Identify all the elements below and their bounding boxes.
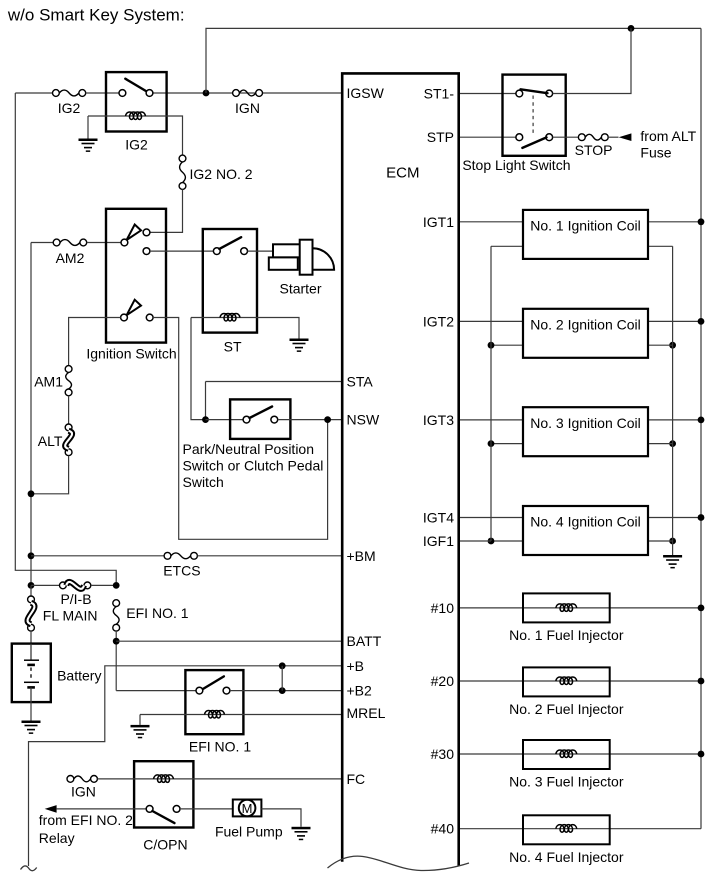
relay EFI NO. 1 body bbox=[185, 670, 243, 734]
wire EFI NO. 1 fuse to EFI relay contact bbox=[115, 631, 117, 691]
coil No. 3 fuel injector winding bbox=[556, 750, 577, 758]
coil No. 1 fuel injector winding bbox=[556, 604, 577, 612]
svg-text:IGN: IGN bbox=[71, 784, 96, 800]
wire ST relay coil to STA node bbox=[191, 318, 206, 420]
contact park/neutral switch right bbox=[271, 416, 278, 423]
wire IG2 relay coil row to IG2 NO. 2 fuse bbox=[88, 116, 183, 155]
wire No. 2 ignition coil to ground bus bbox=[648, 344, 673, 346]
wire to P/I-B fusible link bbox=[31, 584, 60, 586]
svg-text:Battery: Battery bbox=[57, 668, 101, 684]
svg-text:Starter: Starter bbox=[279, 281, 321, 297]
junction +B rail at IGT1 bbox=[698, 218, 705, 225]
svg-text:from ALT: from ALT bbox=[640, 128, 696, 144]
ground ignition coils bbox=[663, 555, 682, 568]
wire #40 pin through No. 4 fuel injector to +B rail bbox=[459, 828, 701, 830]
svg-text:Switch: Switch bbox=[183, 474, 224, 490]
wire ST relay to starter bbox=[248, 250, 274, 252]
junction coil ground bus at No. 3 coil bbox=[669, 440, 676, 447]
contact EFI relay switch right bbox=[223, 687, 230, 694]
contact stop light switch upper right bbox=[546, 90, 553, 97]
junction IGF bus at No. 3 coil bbox=[488, 440, 495, 447]
coil IG2 relay winding bbox=[126, 112, 146, 120]
wire ignition switch AM1 terminal to AM1 fuse bbox=[69, 318, 121, 366]
fusible link P/I-B bbox=[60, 582, 91, 589]
svg-text:IG2: IG2 bbox=[125, 137, 148, 153]
fuse STOP bbox=[578, 134, 608, 141]
junction top rail / stop light switch branch bbox=[628, 25, 635, 32]
wire No. 2 ignition coil to +B rail bbox=[648, 320, 701, 322]
junction coil ground bus at No. 4 coil bbox=[669, 538, 676, 545]
wire P/I-B to EFI NO. 1 fuse node bbox=[91, 584, 116, 586]
wire IG2 NO. 2 fuse to ignition switch IG2 terminal bbox=[150, 189, 183, 232]
contact ignition switch ST feed terminal bbox=[143, 248, 150, 255]
fuel injector No. 3 body bbox=[523, 740, 610, 769]
junction +B rail at #10 bbox=[698, 605, 705, 612]
wire No. 3 ignition coil to +B rail bbox=[648, 419, 701, 421]
svg-text:from EFI NO. 2: from EFI NO. 2 bbox=[39, 812, 133, 828]
wire ST relay coil row to ground bbox=[191, 318, 299, 339]
wire No. 3 ignition coil IGF to bus bbox=[491, 443, 523, 445]
svg-text:Ignition Switch: Ignition Switch bbox=[86, 346, 176, 362]
wire ignition coil ground bus bbox=[672, 246, 674, 555]
wire AM2 bus down to P/I-B node bbox=[30, 243, 32, 583]
wire right +B rail bbox=[700, 28, 702, 828]
wire STOP fuse to ALT fuse feed bbox=[608, 136, 618, 138]
junction +B rail at IGT4 bbox=[698, 514, 705, 521]
contact IG2 relay switch left bbox=[119, 90, 126, 97]
svg-text:IGN: IGN bbox=[235, 100, 260, 116]
svg-text:EFI NO. 1: EFI NO. 1 bbox=[189, 739, 251, 755]
contact stop light switch upper left bbox=[516, 90, 523, 97]
blade C/OPN switch bbox=[152, 811, 174, 823]
fusible link FL MAIN bbox=[28, 596, 35, 631]
wire left bus to IG2 fuse bbox=[15, 92, 52, 94]
wire stop light switch to top rail bbox=[553, 28, 631, 93]
junction EFI NO. 1 fuse top node bbox=[113, 582, 120, 589]
svg-text:FL MAIN: FL MAIN bbox=[43, 608, 98, 624]
svg-text:#30: #30 bbox=[431, 746, 455, 762]
wire +B to +B2 tie bbox=[281, 666, 283, 691]
svg-text:AM1: AM1 bbox=[34, 374, 63, 390]
svg-text:Fuse: Fuse bbox=[640, 145, 671, 161]
arrow from EFI NO. 2 relay bbox=[45, 805, 57, 813]
wire No. 4 ignition coil IGF to bus bbox=[491, 540, 523, 542]
wire IGT4 pin to No. 4 ignition coil bbox=[459, 517, 523, 519]
coil C/OPN relay winding bbox=[154, 775, 174, 783]
svg-text:#10: #10 bbox=[431, 600, 455, 616]
blade park/neutral switch bbox=[250, 407, 273, 419]
junction IGF bus at No. 2 coil bbox=[488, 342, 495, 349]
junction BATT node bbox=[113, 638, 120, 645]
arrow from ALT fuse bbox=[619, 133, 632, 141]
svg-text:IGT2: IGT2 bbox=[423, 313, 454, 329]
svg-text:+B: +B bbox=[347, 658, 365, 674]
wire No. 4 ignition coil to ground bus bbox=[648, 540, 673, 542]
junction ALT feed / battery bus bbox=[28, 490, 35, 497]
wire BATT node to EFI relay switch bbox=[116, 690, 196, 692]
motor fuel pump bbox=[233, 800, 262, 817]
svg-text:+BM: +BM bbox=[347, 548, 376, 564]
contact stop light switch lower right bbox=[546, 134, 553, 141]
blade IG2 relay switch bbox=[125, 79, 145, 91]
wire P/I-B node to FL MAIN bbox=[30, 585, 32, 596]
svg-text:ST1-: ST1- bbox=[424, 86, 455, 102]
junction STA / ST coil / park-neutral switch bbox=[202, 416, 209, 423]
starter motor symbol bbox=[269, 240, 334, 275]
svg-text:BATT: BATT bbox=[347, 633, 382, 649]
wire C/OPN switch to fuel pump bbox=[180, 808, 233, 810]
ignition coil No. 2 body bbox=[523, 309, 648, 358]
ground ST relay coil bbox=[290, 339, 309, 352]
wire continuation squiggle bottom left bbox=[21, 866, 37, 871]
svg-text:#20: #20 bbox=[431, 673, 455, 689]
wire STP pin to stop light switch bbox=[459, 136, 516, 138]
wire #20 pin through No. 2 fuel injector to +B rail bbox=[459, 680, 701, 682]
wire AM2 bus to AM2 fuse bbox=[31, 242, 53, 244]
junction P/I-B left node bbox=[28, 582, 35, 589]
junction IGF bus at No. 4 coil bbox=[488, 538, 495, 545]
wire No. 4 ignition coil to +B rail bbox=[648, 517, 701, 519]
wire No. 1 ignition coil to ground bus bbox=[648, 245, 673, 247]
svg-text:No. 3 Ignition Coil: No. 3 Ignition Coil bbox=[530, 415, 641, 431]
contact ignition switch ST terminal bbox=[146, 314, 153, 321]
fuse AM2 bbox=[53, 239, 87, 246]
svg-text:No. 4 Fuel Injector: No. 4 Fuel Injector bbox=[509, 849, 624, 865]
switch ignition body bbox=[106, 209, 166, 343]
fuel injector No. 2 body bbox=[523, 667, 610, 696]
coil No. 4 fuel injector winding bbox=[556, 825, 577, 833]
relay ST body bbox=[203, 229, 257, 333]
ground battery negative bbox=[22, 721, 41, 734]
wire No. 2 ignition coil IGF to bus bbox=[491, 344, 523, 346]
svg-text:IG2: IG2 bbox=[58, 100, 81, 116]
contact IG2 relay switch right bbox=[146, 90, 153, 97]
wire IGF bus bbox=[490, 246, 492, 541]
battery B1 cells bbox=[24, 644, 39, 702]
svg-text:No. 1 Ignition Coil: No. 1 Ignition Coil bbox=[530, 218, 641, 234]
ignition coil No. 1 body bbox=[523, 210, 648, 259]
wire EFI relay coil ground stem bbox=[139, 715, 141, 725]
svg-text:STP: STP bbox=[427, 129, 454, 145]
wire IGT2 pin to No. 2 ignition coil bbox=[459, 320, 523, 322]
switch park/neutral position body bbox=[230, 399, 290, 439]
junction coil ground bus at No. 2 coil bbox=[669, 342, 676, 349]
switch stop light body bbox=[503, 75, 566, 156]
svg-text:#40: #40 bbox=[431, 821, 455, 837]
svg-text:IGSW: IGSW bbox=[347, 85, 385, 101]
svg-text:ECM: ECM bbox=[386, 165, 419, 182]
wire #30 pin through No. 3 fuel injector to +B rail bbox=[459, 753, 701, 755]
svg-text:No. 3 Fuel Injector: No. 3 Fuel Injector bbox=[509, 774, 624, 790]
contact stop light switch lower left bbox=[516, 134, 523, 141]
svg-text:P/I-B: P/I-B bbox=[60, 591, 91, 607]
wire AM2 fuse to ignition switch bbox=[87, 242, 121, 244]
coil ST relay winding bbox=[220, 313, 240, 321]
ignition coil No. 4 body bbox=[523, 506, 648, 555]
wire BATT pin bbox=[116, 640, 341, 642]
junction NSW node bbox=[324, 416, 331, 423]
wire C/OPN coil row to FC pin bbox=[97, 778, 341, 780]
coil No. 2 fuel injector winding bbox=[556, 677, 577, 685]
junction ETCS node on battery bus bbox=[28, 552, 35, 559]
svg-text:+B2: +B2 bbox=[347, 683, 373, 699]
ECM torn bottom edge bbox=[328, 856, 470, 870]
junction +B tie upper bbox=[279, 662, 286, 669]
svg-text:ALT: ALT bbox=[38, 433, 63, 449]
wire AM1 fuse to ALT fusible link bbox=[68, 396, 70, 424]
svg-text:IGF1: IGF1 bbox=[423, 533, 454, 549]
svg-text:FC: FC bbox=[347, 771, 366, 787]
blade ignition switch lower key wedge bbox=[127, 300, 141, 316]
svg-text:No. 1 Fuel Injector: No. 1 Fuel Injector bbox=[509, 627, 624, 643]
fusible link ALT bbox=[65, 424, 72, 456]
svg-text:ETCS: ETCS bbox=[163, 563, 200, 579]
svg-text:Relay: Relay bbox=[39, 830, 75, 846]
fuse IG2 bbox=[53, 90, 86, 97]
junction +B rail at #20 bbox=[698, 678, 705, 685]
contact park/neutral switch left bbox=[243, 416, 250, 423]
wire to park neutral switch bbox=[206, 419, 244, 421]
svg-text:ST: ST bbox=[224, 339, 242, 355]
wire IGT3 pin to No. 3 ignition coil bbox=[459, 419, 523, 421]
contact C/OPN switch right bbox=[173, 806, 180, 813]
junction +B2 tie lower bbox=[279, 687, 286, 694]
svg-text:Switch or Clutch Pedal: Switch or Clutch Pedal bbox=[183, 458, 324, 474]
ground fuel pump bbox=[292, 827, 311, 840]
junction +B rail at #30 bbox=[698, 751, 705, 758]
svg-text:Fuel Pump: Fuel Pump bbox=[215, 824, 283, 840]
wire EFI relay coil row to MREL pin bbox=[140, 714, 342, 716]
wire No. 1 ignition coil IGF to bus bbox=[491, 245, 523, 247]
svg-text:IGT1: IGT1 bbox=[423, 214, 454, 230]
svg-text:No. 2 Fuel Injector: No. 2 Fuel Injector bbox=[509, 701, 624, 717]
contact ST relay switch left bbox=[213, 248, 220, 255]
fuse IG2 NO. 2 bbox=[179, 155, 186, 189]
wire battery bus to ETCS fuse bbox=[31, 555, 164, 557]
fuel injector No. 4 body bbox=[523, 815, 610, 844]
wire IG2 relay to ECM IGSW pin bbox=[153, 92, 342, 94]
ECM body bbox=[342, 73, 459, 865]
blade ignition switch upper key wedge bbox=[127, 225, 141, 241]
blade EFI relay switch bbox=[203, 676, 224, 689]
svg-text:M: M bbox=[242, 801, 253, 816]
wire #10 pin through No. 1 fuel injector to +B rail bbox=[459, 607, 701, 609]
svg-text:MREL: MREL bbox=[347, 705, 386, 721]
junction IGSW node bbox=[203, 90, 210, 97]
svg-text:No. 2 Ignition Coil: No. 2 Ignition Coil bbox=[530, 317, 641, 333]
svg-text:C/OPN: C/OPN bbox=[143, 837, 187, 853]
wire ST1- pin to stop light switch bbox=[459, 93, 516, 95]
wire No. 1 ignition coil to +B rail bbox=[648, 221, 701, 223]
ground EFI relay coil bbox=[131, 725, 150, 738]
contact C/OPN switch left bbox=[146, 806, 153, 813]
wire IGT1 pin to No. 1 ignition coil bbox=[459, 221, 523, 223]
svg-text:Stop Light Switch: Stop Light Switch bbox=[462, 157, 570, 173]
wire FL MAIN to battery positive bbox=[30, 631, 32, 644]
blade ST relay switch bbox=[219, 237, 241, 249]
wire No. 3 ignition coil to ground bus bbox=[648, 443, 673, 445]
wire ignition switch to ST relay switch bbox=[150, 250, 214, 252]
wire stop light switch to STOP fuse bbox=[553, 136, 579, 138]
wire ETCS fuse to +BM pin bbox=[197, 555, 341, 557]
svg-text:w/o Smart Key System:: w/o Smart Key System: bbox=[7, 6, 185, 25]
svg-text:STOP: STOP bbox=[575, 142, 613, 158]
relay IG2 body bbox=[106, 72, 167, 131]
contact EFI relay switch left bbox=[196, 687, 203, 694]
wire fuel pump to ground bbox=[261, 809, 301, 827]
wire left feeder bus down to EFI NO. 1 fuse node bbox=[15, 93, 116, 582]
svg-text:IGT4: IGT4 bbox=[423, 510, 454, 526]
link stop light switch dashed bbox=[532, 96, 534, 136]
wire IGF1 pin to IGF bus bbox=[459, 540, 491, 542]
wire park neutral switch to NSW pin bbox=[278, 419, 342, 421]
fuse ETCS bbox=[164, 552, 197, 559]
wire from EFI NO. 2 relay to C/OPN switch bbox=[57, 808, 147, 810]
ignition coil No. 3 body bbox=[523, 407, 648, 456]
svg-text:NSW: NSW bbox=[347, 412, 380, 428]
relay C/OPN body bbox=[134, 761, 193, 827]
blade stop light switch lower bbox=[522, 137, 546, 148]
junction +B rail at IGT2 bbox=[698, 318, 705, 325]
fuse AM1 bbox=[65, 366, 72, 396]
contact ignition switch AM2 upper bbox=[121, 239, 128, 246]
wire IG2 relay coil to ground stem bbox=[87, 116, 89, 139]
svg-text:STA: STA bbox=[347, 374, 374, 390]
fuse EFI NO. 1 bbox=[113, 600, 120, 631]
wire IG2 fuse to IG2 relay bbox=[86, 92, 119, 94]
contact ignition switch AM1 lower bbox=[121, 314, 128, 321]
fuse IGN bbox=[233, 90, 263, 97]
wire EFI relay switch to +B2 pin bbox=[230, 690, 342, 692]
fuel injector No. 1 body bbox=[523, 593, 610, 622]
wire ALT fusible link to battery bus bbox=[31, 456, 69, 494]
coil EFI NO. 1 relay winding bbox=[205, 710, 225, 718]
svg-text:IG2 NO. 2: IG2 NO. 2 bbox=[190, 166, 253, 182]
wire off-page feed to +B pin bbox=[29, 666, 342, 866]
svg-text:AM2: AM2 bbox=[56, 250, 85, 266]
svg-text:EFI NO. 1: EFI NO. 1 bbox=[126, 605, 188, 621]
blade stop light switch upper bbox=[521, 89, 548, 93]
wire IGSW node to top rail bbox=[206, 28, 701, 93]
contact ignition switch IG2 terminal bbox=[143, 229, 150, 236]
svg-text:No. 4 Ignition Coil: No. 4 Ignition Coil bbox=[530, 514, 641, 530]
svg-text:Park/Neutral Position: Park/Neutral Position bbox=[183, 441, 315, 457]
svg-text:IGT3: IGT3 bbox=[423, 412, 454, 428]
contact ST relay switch right bbox=[241, 248, 248, 255]
wire battery negative to ground bbox=[30, 702, 32, 721]
wire STA pin bbox=[206, 381, 342, 383]
wire STA to NSW node bbox=[205, 382, 207, 420]
wire ignition switch ST terminal loop to NSW node bbox=[153, 318, 328, 540]
fuse IGN lower bbox=[67, 776, 97, 783]
battery B1 body bbox=[12, 644, 51, 703]
ground IG2 relay coil bbox=[79, 139, 98, 152]
junction +B rail at IGT3 bbox=[698, 417, 705, 424]
